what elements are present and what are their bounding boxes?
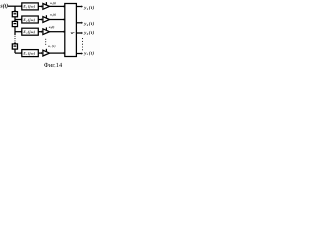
svg-text:w·: w· [71, 30, 75, 35]
svg-text:y₂(t): y₂(t) [83, 21, 94, 27]
svg-text:Фиг.14: Фиг.14 [44, 62, 63, 69]
svg-text:E₁(jω): E₁(jω) [22, 5, 35, 9]
svg-text:s(t): s(t) [0, 2, 8, 9]
svg-text:uₓ(t): uₓ(t) [48, 44, 56, 48]
svg-text:y₃(t): y₃(t) [83, 30, 94, 36]
svg-text:E₂(jω): E₂(jω) [22, 18, 35, 22]
svg-text:yₓ(t): yₓ(t) [83, 50, 94, 56]
svg-text:y₁(t): y₁(t) [83, 5, 94, 11]
svg-text:u₂(t): u₂(t) [50, 13, 56, 17]
svg-text:u₃(t): u₃(t) [49, 25, 55, 29]
svg-text:Eₓ(jω): Eₓ(jω) [22, 51, 35, 55]
svg-text:E₃(jω): E₃(jω) [22, 30, 35, 34]
svg-text:u₁(t): u₁(t) [50, 1, 56, 5]
